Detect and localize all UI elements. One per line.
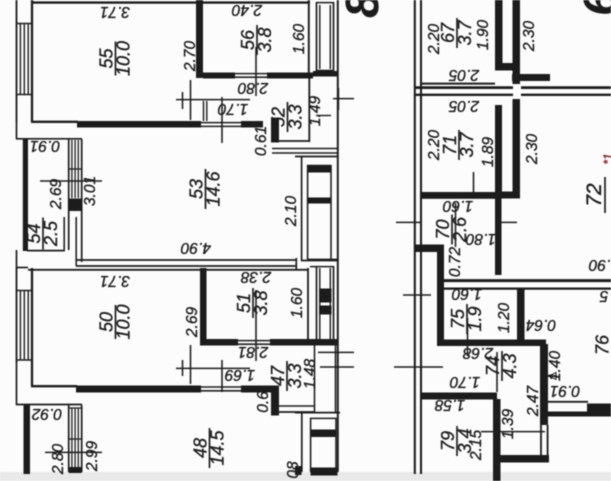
dim 1.89 room71 [480, 137, 497, 168]
svg-text:2.15: 2.15 [468, 430, 485, 462]
room label 72 partial [583, 177, 606, 213]
red mark near 72 [601, 153, 611, 164]
dim 2.05 room71 [449, 97, 481, 114]
room label 67/3.7 [438, 18, 475, 48]
dim 0.91 right [550, 382, 580, 399]
svg-text:0.91: 0.91 [30, 137, 60, 154]
balcony B3 (room51) outline [308, 258, 338, 260]
wall: room48 top right segment [241, 386, 272, 393]
dim 0.61 jog [253, 126, 270, 156]
svg-text:3.8: 3.8 [255, 27, 275, 52]
step box below room50 left [16, 363, 18, 405]
room label 52/3.3 [269, 102, 306, 132]
svg-text:2.47: 2.47 [525, 385, 542, 418]
room label 76 partial [593, 334, 611, 355]
svg-text:2.05: 2.05 [449, 66, 481, 83]
svg-text:14.6: 14.6 [204, 171, 224, 207]
balcony B4 black tick left [295, 466, 302, 475]
wall: double horizontal line2 [414, 94, 513, 96]
dim 3.71 room55 [100, 3, 130, 20]
svg-text:1.20: 1.20 [496, 303, 513, 334]
wall: room79 right thick bar [493, 399, 501, 481]
wall: room48 top thick (left segment) [76, 386, 201, 393]
dim 2.69 room50 [184, 307, 201, 339]
balcony outer edge long line [337, 0, 339, 472]
wall: room71 bottom thick [421, 192, 495, 199]
svg-text:0.92: 0.92 [32, 405, 63, 422]
wall: room79 top thick [421, 393, 497, 400]
room label 47/3.3 [268, 361, 305, 391]
scan edge gray strip bottom [0, 472, 611, 481]
svg-text:2.69: 2.69 [48, 179, 65, 211]
dim line 1.69 bottom [176, 367, 250, 369]
svg-text:2.69: 2.69 [184, 307, 201, 339]
svg-text:76: 76 [593, 334, 611, 355]
svg-text:1.39: 1.39 [500, 409, 517, 440]
step outline left, below room54 [16, 250, 18, 268]
room label 51/3.8 [234, 288, 271, 318]
svg-text:2.40: 2.40 [232, 1, 264, 18]
wall: right unit left double wall line1 [414, 0, 416, 474]
svg-text:1.70: 1.70 [450, 373, 481, 390]
witness line room51 label [255, 290, 257, 361]
dim line 1.49 right of room52 [333, 98, 354, 100]
svg-text:2.80: 2.80 [238, 79, 270, 96]
balcony B1 (room56) outline [316, 2, 318, 72]
svg-text:1.70: 1.70 [218, 100, 249, 117]
svg-text:1.48: 1.48 [302, 359, 319, 390]
dim line y222 across corridor [396, 221, 422, 223]
dim 1.69 hall bottom [225, 366, 256, 383]
witness line room74 label [496, 352, 498, 392]
svg-text:10.0: 10.0 [114, 304, 134, 339]
window W1 room55: bottom sill [16, 94, 33, 96]
room75 left wall [437, 288, 444, 346]
wall: top exterior thin line rooms 55/56 [33, 1, 310, 3]
wall: double horizontal between units 67/71 line1 [414, 86, 513, 89]
wall: bottom-left exterior thick [24, 405, 31, 474]
svg-text:1.60: 1.60 [291, 24, 308, 55]
witness line room75 label [467, 318, 469, 356]
balcony B4 black pier 1 [310, 430, 337, 438]
room label 74/4.3 [483, 351, 520, 381]
svg-text:1.80: 1.80 [466, 230, 497, 247]
wall: room51 bottom left segment [206, 339, 238, 346]
svg-text:0.91: 0.91 [550, 382, 580, 399]
room label 79/3.4 [438, 426, 475, 456]
room47 outer right line [335, 346, 337, 413]
wall: room51/47 bottom right segment to balcony [270, 339, 338, 346]
dim 1.39 room74 [500, 409, 517, 440]
window W1 hatch lines [19, 24, 21, 95]
dim 1.20 room75 [496, 303, 513, 334]
room label 50/10.0 [97, 304, 134, 339]
svg-text:3.7: 3.7 [455, 20, 475, 46]
wall: room53 top right segment [241, 121, 263, 128]
svg-text:2.38: 2.38 [241, 268, 273, 285]
wall: thick vertical corridor right [437, 252, 444, 290]
dim 2.40 room56 [232, 1, 264, 18]
room75/74 bottom/top wall [437, 340, 546, 347]
room75 right wall [517, 288, 525, 346]
svg-text:1.89: 1.89 [480, 137, 497, 168]
room label 56/3.8 [238, 25, 275, 55]
svg-text:3.71: 3.71 [100, 3, 130, 20]
room label 54/2.5 [24, 218, 61, 250]
svg-text:4.90: 4.90 [589, 256, 611, 273]
wall: bottom thick room74/79 [493, 455, 549, 463]
svg-text:0.64: 0.64 [526, 316, 557, 333]
wall: room55 bottom thick (room53 top) [77, 121, 201, 128]
balcony B4 inner box [310, 418, 312, 472]
dim 2.10 balcony B2 [283, 196, 300, 228]
svg-text:1.60: 1.60 [443, 197, 474, 214]
wall: left exterior inner edge room50 [31, 268, 33, 386]
dim 2.70 room55 [182, 41, 199, 73]
wall: room51 left thick partition [200, 268, 207, 346]
dim 4.90 right clipped [589, 256, 611, 273]
window W4 hatch [71, 408, 73, 470]
dim 0.72 corridor [447, 247, 464, 278]
svg-text:0.72: 0.72 [447, 247, 464, 278]
wall: room56 bottom (left segment) [203, 73, 235, 79]
svg-text:5: 5 [599, 287, 608, 304]
svg-text:2.99: 2.99 [84, 441, 101, 473]
wall: left exterior outer line room55 [16, 0, 18, 122]
shaft room67 left bar [495, 0, 503, 70]
window W4 black base [69, 467, 82, 473]
dim 1.70 hall [218, 100, 249, 117]
witness line 2.70 room55 [190, 80, 192, 120]
dim 1.60 room56 [291, 24, 308, 55]
svg-text:1.40: 1.40 [547, 351, 564, 382]
dim 2.80 hall [238, 79, 270, 96]
dim 2.47 room74 [525, 385, 542, 418]
wall: room56 right thin [308, 0, 310, 73]
room label 70/2.6 [433, 215, 470, 245]
white slot in room74 right wall [543, 354, 545, 420]
room52 right thin wall [308, 78, 310, 142]
svg-text:08: 08 [285, 461, 302, 479]
big section number 6 partial top right [574, 0, 611, 16]
witness line room71 label [473, 172, 475, 197]
balcony B3 black pier 1 [319, 289, 332, 303]
svg-text:1.9: 1.9 [465, 306, 485, 331]
svg-text:2.80: 2.80 [50, 444, 67, 476]
dim 0.6 jog bottom [255, 391, 272, 413]
svg-text:1.69: 1.69 [225, 366, 256, 383]
dim 2.15 room79 [468, 430, 485, 462]
shaft room71 left bar [495, 105, 502, 199]
balcony B2 bottom line [301, 260, 338, 262]
wall top edge line room48 [31, 385, 77, 387]
room52 bottom thin wall [279, 140, 310, 142]
svg-text:1.60: 1.60 [289, 288, 306, 319]
wall: double horizontal mid line2 [437, 287, 611, 289]
svg-text:8: 8 [336, 0, 388, 18]
wall top edge line from interior corner [31, 121, 78, 123]
svg-text:10.0: 10.0 [114, 41, 134, 76]
balcony B2 black pier 2 [307, 198, 332, 204]
big section number 8 [336, 0, 388, 18]
svg-text:3.3: 3.3 [286, 104, 306, 129]
dim line 1.48 right of room47 [318, 351, 354, 353]
svg-text:0.6: 0.6 [255, 391, 272, 413]
dim 3.71 room50 [100, 272, 130, 289]
dim 2.30 room71 [524, 134, 541, 166]
dim 2.20 room67 [426, 24, 443, 56]
room label 53/14.6 [187, 169, 224, 209]
step box below room55 left [16, 122, 18, 139]
svg-text:3.71: 3.71 [100, 272, 130, 289]
dim 3.01 room53 left [82, 176, 99, 206]
door gap lines in room56 bottom wall [235, 73, 267, 75]
dim 1.48 room47 [302, 359, 319, 390]
svg-text:2.10: 2.10 [283, 196, 300, 228]
witness line 2.69 room50 [190, 345, 192, 384]
svg-text:2.70: 2.70 [182, 41, 199, 73]
corridor double lines between room53 and room50/51 [76, 259, 297, 261]
svg-text:4.90: 4.90 [181, 239, 212, 256]
dim line room54 [40, 180, 102, 182]
balcony B2 inner verticals [307, 165, 309, 261]
wall: thick partition between room55 and room56 [196, 0, 203, 78]
hall thin lines right of room53 [272, 148, 338, 150]
dim 2.20 room71 [426, 130, 443, 162]
svg-text:1.90: 1.90 [475, 20, 492, 51]
dim 4.90 room53 [181, 239, 212, 256]
door gap lines room51 bottom [238, 340, 270, 342]
dim 1.60 room70 [443, 197, 474, 214]
dim 1.60 room75 [452, 285, 483, 302]
svg-text:1.60: 1.60 [452, 285, 483, 302]
room47 right thin wall [314, 346, 316, 413]
black pier right of room56 bottom wall [313, 71, 338, 77]
dim 2.05 room67 [449, 66, 481, 83]
balcony B2 dim tick [316, 115, 331, 117]
dim line 1.70 top [176, 99, 250, 101]
balcony B2 (room53) top line [295, 156, 338, 158]
window W4 band lines [68, 405, 70, 472]
dim 1.80 room70 [466, 230, 497, 247]
room54 bottom thin wall [27, 250, 65, 252]
room label 71/3.7 [440, 130, 477, 160]
dim line y432 room74 [481, 431, 545, 433]
corridor vertical line [75, 217, 77, 266]
room47 bottom thin line [279, 411, 315, 413]
thick wall right of shaft67 [512, 74, 550, 81]
dim 1.58 room79 [435, 396, 466, 413]
dim 1.40 right [547, 351, 564, 382]
wall: right unit left double wall line2 [420, 0, 422, 474]
balcony B2 left line [301, 157, 303, 262]
svg-text:3.01: 3.01 [82, 176, 99, 206]
svg-text:3.7: 3.7 [457, 132, 477, 158]
svg-text:3.8: 3.8 [251, 290, 271, 315]
wall: room56 bottom (right segment) [267, 73, 313, 79]
room51 right thin wall [307, 268, 309, 339]
shaft room71 bottom connector / room71 bottom wall right [495, 192, 520, 199]
dim 0.91 room54 [30, 137, 60, 154]
dim line gap y368 right [320, 366, 354, 368]
balcony B4 black pier 2 [311, 468, 338, 476]
dim 2.68 room74 [463, 344, 495, 361]
svg-text:2.30: 2.30 [524, 134, 541, 166]
dim line y295 left of right unit [403, 294, 431, 296]
corridor lines end connector [295, 258, 297, 270]
black block bottom of W2 [69, 199, 82, 212]
svg-text:6: 6 [574, 0, 611, 16]
svg-text:14.5: 14.5 [208, 430, 228, 466]
wall: room74 right lower double thin [540, 425, 542, 456]
svg-text:*1: *1 [601, 153, 611, 164]
shaft room67 bottom connector [495, 63, 520, 71]
window W3 hatch lines [19, 291, 21, 361]
room label 48/14.5 [191, 428, 228, 468]
room54 right wall lower [63, 217, 65, 251]
window W3 room50: top sill [16, 290, 33, 292]
balcony B4 left line [301, 413, 303, 472]
svg-text:72: 72 [583, 183, 606, 207]
wall: left exterior outer line room50 [16, 268, 18, 363]
window W1 room55: top sill [16, 23, 33, 25]
window W3 room50: bottom sill [16, 359, 33, 361]
dim 2.99 bottom left [84, 441, 101, 473]
dim 08 partial bottom [285, 461, 302, 479]
shaft room71 right bar [513, 99, 521, 199]
thin wall above 2.05 room67 [421, 83, 495, 85]
dim 1.70 room74 [450, 373, 481, 390]
dim 2.30 room67 [521, 21, 538, 53]
room label 75/1.9 [448, 304, 485, 334]
dim 1.49 room52 [307, 96, 324, 127]
wall: jog corner room47 [271, 386, 279, 416]
dim 2.80 bottom left [50, 444, 67, 476]
balcony B4 (room48) top line [295, 412, 340, 414]
svg-text:4.3: 4.3 [500, 353, 520, 378]
right area thin step line [548, 401, 588, 403]
dim 0.92 bottom left [32, 405, 63, 422]
dim 1.90 room67 [475, 20, 492, 51]
wall: room54 left exterior thick [23, 139, 28, 251]
svg-text:2.05: 2.05 [449, 97, 481, 114]
dim line bottom room48 [45, 451, 102, 453]
dim 5 partial right [599, 287, 608, 304]
window W2 shaft band lines [68, 139, 70, 250]
svg-text:2.81: 2.81 [238, 343, 269, 360]
wall: thick vertical right of room70 [495, 198, 502, 275]
dim 2.69 room54 [48, 179, 65, 211]
balcony B2 black pier 1 [307, 166, 332, 173]
right area thick wall to edge [548, 412, 611, 417]
door gap lines room48 top [201, 386, 241, 388]
wall: jog corner into room52 [271, 118, 279, 143]
wall: room70 bottom thick [414, 245, 444, 253]
door gap lines room53 top [201, 122, 241, 124]
shaft room67 right bar [513, 0, 521, 84]
room label 55/10.0 [97, 41, 134, 76]
room50/51 top thin line [28, 269, 308, 271]
dim 2.81 below room51 [238, 343, 269, 360]
dim 1.60 room51 [289, 288, 306, 319]
witness line room70 label [455, 203, 457, 247]
svg-text:1.49: 1.49 [307, 96, 324, 127]
window W2 hatch [71, 140, 73, 198]
wall: left exterior inner edge room55 [31, 0, 33, 122]
dim 0.64 right [526, 316, 557, 333]
svg-text:2.30: 2.30 [521, 21, 538, 53]
dim line 0.91 arrow [545, 375, 557, 377]
wall: double horizontal mid line1 [437, 279, 611, 282]
dim 2.38 room51 [241, 268, 273, 285]
svg-text:2.5: 2.5 [41, 220, 61, 247]
svg-text:0.61: 0.61 [253, 126, 270, 156]
wall: room74 right thick [540, 344, 548, 425]
witness line room56 label [255, 47, 257, 96]
balcony B3 black pier 2 [319, 306, 332, 315]
svg-text:1.58: 1.58 [435, 396, 466, 413]
